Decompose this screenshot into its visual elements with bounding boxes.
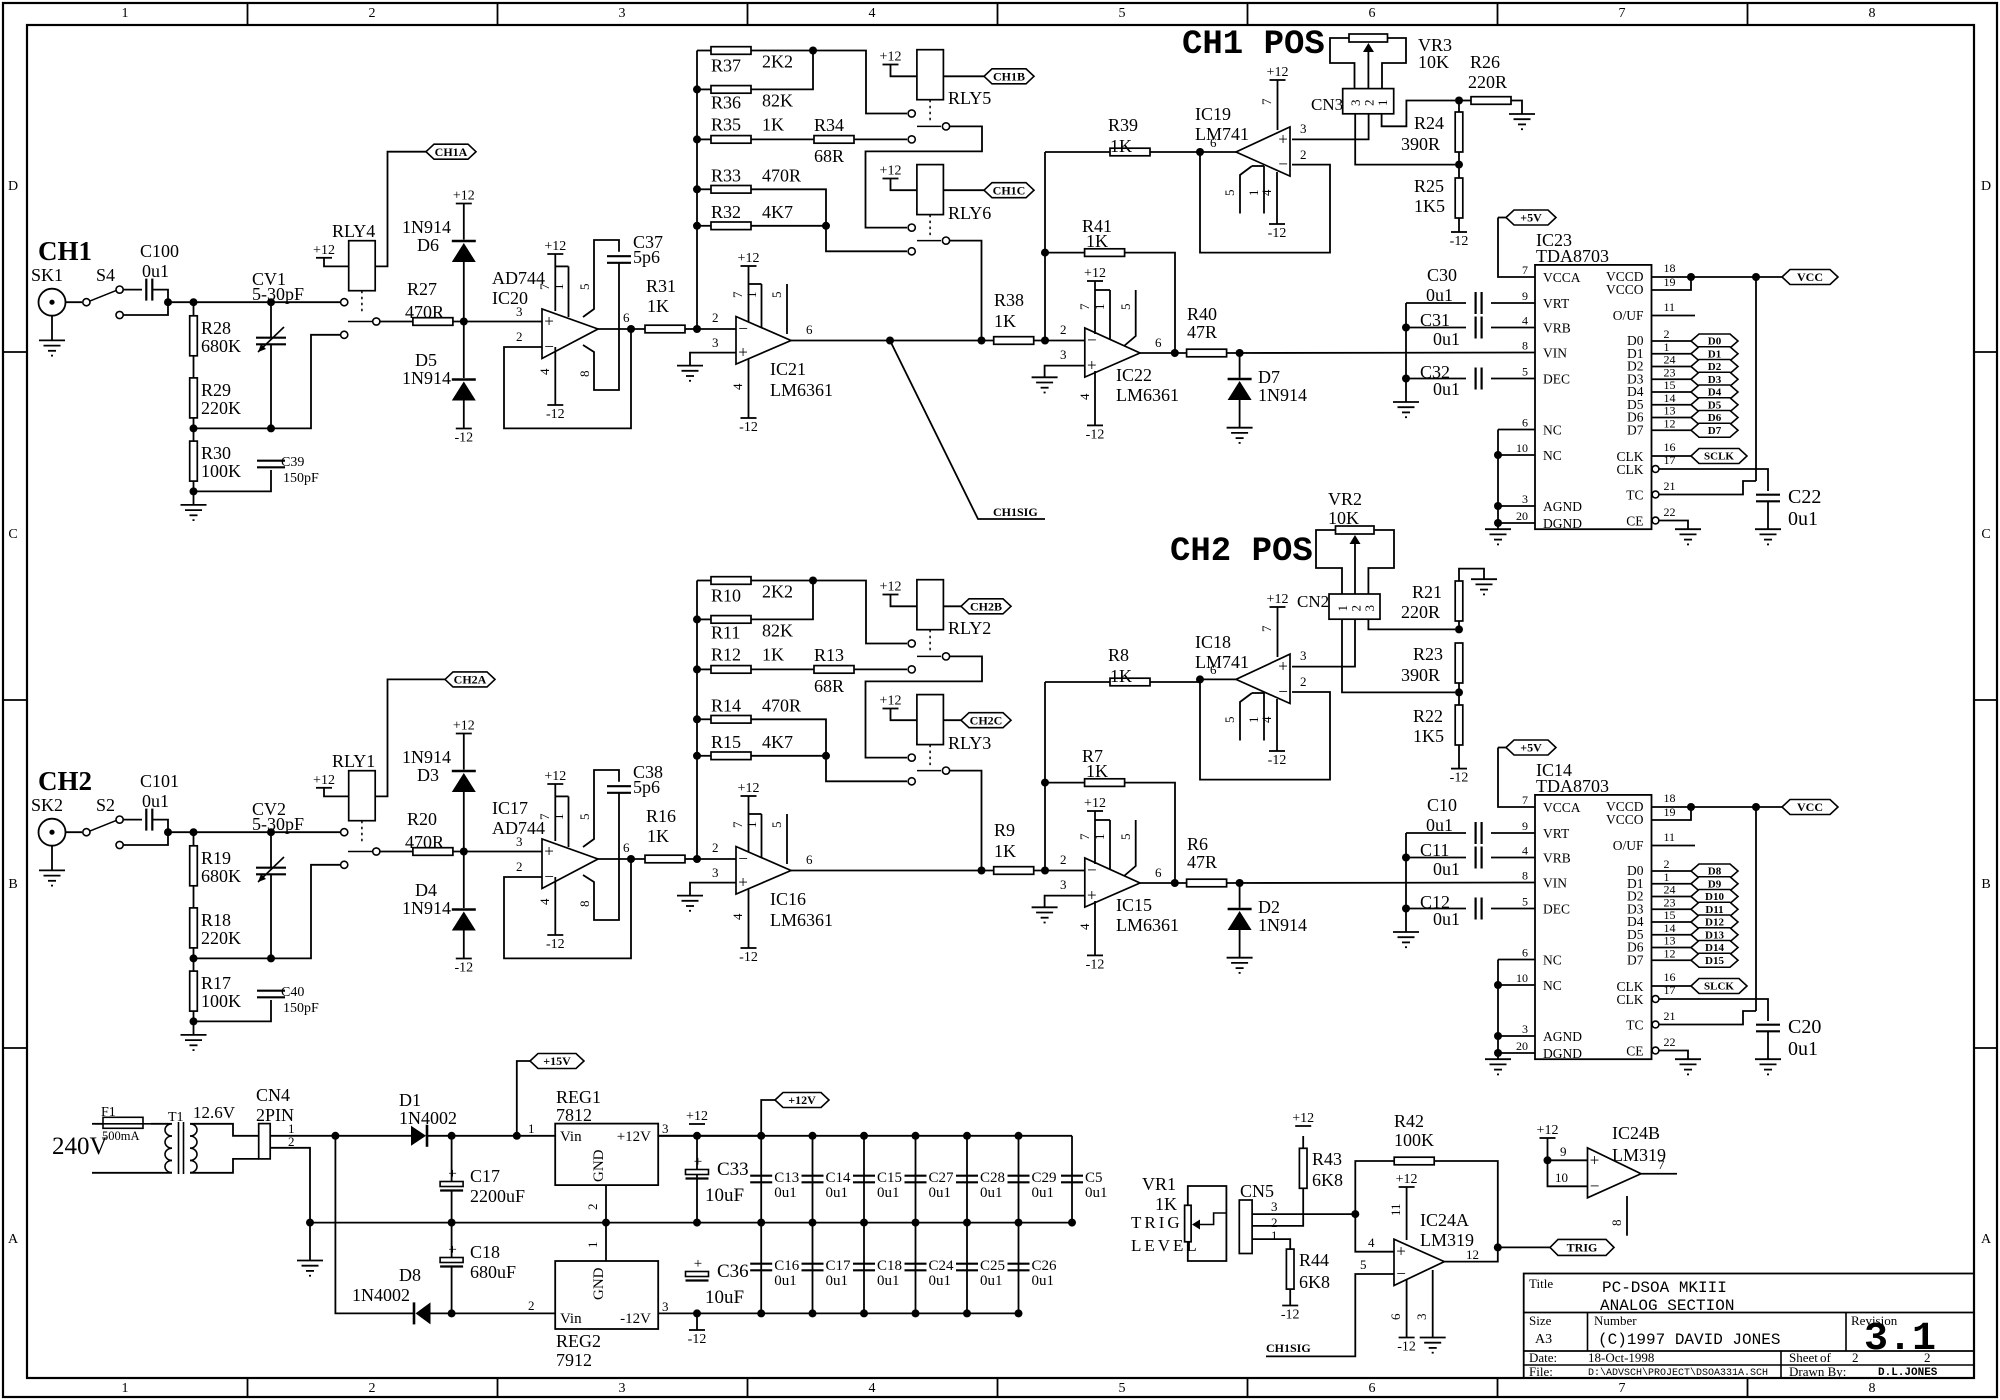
pin 21 bubble: [1652, 491, 1659, 498]
net flag D13: [1691, 928, 1738, 942]
title ANALOG SECTION: [1600, 1297, 1734, 1315]
svg-text:3: 3: [712, 865, 719, 880]
wire: [1094, 371, 1096, 425]
pin 1: [744, 822, 759, 829]
wire: [555, 265, 568, 267]
svg-text:5: 5: [769, 822, 784, 829]
capacitor C33 value: [705, 1185, 744, 1206]
capacitor C11: [1476, 847, 1482, 869]
svg-text:2: 2: [712, 840, 719, 855]
svg-text:-12: -12: [546, 407, 565, 422]
title sheet n: [1852, 1350, 1859, 1365]
svg-text:3: 3: [1271, 1199, 1278, 1214]
capacitor C24 label: [929, 1258, 955, 1274]
wire: [123, 832, 168, 845]
wire: [583, 793, 619, 920]
wire: [1109, 290, 1111, 340]
svg-text:8: 8: [1869, 1381, 1876, 1396]
resistor R39 label: [1108, 115, 1138, 135]
wire: [915, 1223, 917, 1314]
pin 3: [1060, 347, 1067, 362]
ADC pin D4: [1627, 384, 1644, 399]
svg-text:6: 6: [1522, 416, 1528, 430]
capacitor C13 label: [774, 1170, 799, 1186]
wire: [504, 329, 631, 428]
svg-text:R40: R40: [1187, 304, 1217, 324]
pin 24: [1664, 353, 1676, 367]
wire: [193, 418, 195, 441]
capacitor C17 label: [470, 1166, 500, 1186]
svg-text:7: 7: [1658, 1157, 1665, 1172]
svg-text:+12V: +12V: [617, 1129, 651, 1145]
svg-text:D1: D1: [1708, 348, 1721, 360]
svg-text:NC: NC: [1543, 448, 1562, 463]
relay RLY4 contacts: [341, 299, 380, 339]
wire: [463, 401, 465, 429]
capacitor C17 label: [826, 1258, 852, 1274]
op-amp IC22 name1: [1116, 365, 1152, 385]
junction: [693, 615, 701, 623]
svg-text:−: −: [1396, 1264, 1406, 1283]
wire: [1252, 1189, 1303, 1226]
wire: [1276, 172, 1278, 224]
pin 13: [1664, 934, 1676, 948]
resistor R23 value: [1401, 665, 1440, 685]
wire: [1498, 1052, 1535, 1054]
relay RLY1 contacts: [341, 829, 380, 869]
wire: [697, 718, 711, 720]
svg-text:-12: -12: [454, 431, 473, 446]
junction: [1494, 1049, 1502, 1057]
svg-text:3: 3: [516, 304, 523, 319]
svg-text:C39: C39: [281, 455, 304, 470]
svg-text:SLCK: SLCK: [1704, 981, 1734, 993]
wire: [1125, 783, 1175, 883]
capacitor C17: [440, 1166, 463, 1191]
resistor R38 label: [994, 290, 1024, 310]
wire: [1124, 820, 1136, 876]
capacitor C38: [607, 786, 631, 793]
svg-text:16: 16: [1664, 440, 1676, 454]
wire: [190, 1124, 259, 1136]
resistor R13: [814, 666, 854, 674]
svg-text:TDA8703: TDA8703: [1536, 246, 1609, 266]
svg-text:1K: 1K: [647, 826, 669, 846]
diode D2 value: [1258, 915, 1307, 935]
power -12: [546, 935, 565, 952]
op-amp IC18 value: [1195, 652, 1249, 672]
svg-text:7: 7: [1522, 793, 1528, 807]
svg-text:R28: R28: [201, 318, 231, 338]
svg-text:390R: 390R: [1401, 134, 1440, 154]
resistor R38: [994, 337, 1034, 345]
wire: [451, 1191, 453, 1223]
resistor R18 label: [201, 910, 231, 930]
svg-text:4: 4: [1259, 189, 1274, 196]
wire: [760, 1223, 762, 1314]
svg-text:TC: TC: [1626, 1018, 1643, 1033]
net flag D6: [1691, 411, 1738, 425]
wire: [1660, 1051, 1689, 1060]
svg-text:IC22: IC22: [1116, 365, 1152, 385]
svg-text:0u1: 0u1: [929, 1185, 952, 1201]
capacitor C20: [1756, 1025, 1780, 1032]
capacitor C16 value: [774, 1273, 797, 1289]
resistor R41 label: [1082, 216, 1112, 236]
wire: [193, 886, 195, 908]
resistor R8 value: [1110, 666, 1132, 686]
svg-text:5: 5: [1222, 717, 1237, 724]
junction: [757, 1309, 765, 1317]
diode D8: [414, 1302, 431, 1324]
svg-text:+12: +12: [313, 773, 335, 788]
title block Title: [1529, 1276, 1553, 1291]
relay RLY3 contacts: [908, 754, 950, 785]
junction: [1196, 675, 1204, 683]
svg-text:R33: R33: [711, 165, 741, 185]
wire: [270, 344, 272, 428]
svg-text:5: 5: [1522, 895, 1528, 909]
svg-text:D9: D9: [1708, 878, 1722, 890]
ADC pin CLKb: [1617, 462, 1644, 477]
pin 21: [1664, 479, 1676, 493]
junction: [1068, 1219, 1076, 1227]
title block frame: [1524, 1274, 1974, 1379]
wire: [751, 51, 813, 90]
power -12: [454, 959, 473, 976]
ADC pin D3: [1627, 901, 1644, 916]
wire: [1200, 152, 1330, 253]
svg-text:CH2 POS: CH2 POS: [1170, 533, 1313, 571]
pin 2: [516, 329, 523, 344]
capacitor C14 label: [826, 1170, 852, 1186]
wire: [463, 792, 465, 852]
svg-text:-12: -12: [1086, 427, 1105, 442]
title block Size: [1529, 1313, 1552, 1328]
capacitor C10 label: [1427, 795, 1457, 815]
junction: [1494, 502, 1502, 510]
wire: [1252, 165, 1264, 167]
junction: [460, 318, 468, 326]
svg-text:R20: R20: [407, 809, 437, 829]
wire: [1239, 353, 1241, 378]
relay RLY6 coil: [917, 165, 944, 237]
svg-text:1K: 1K: [994, 841, 1016, 861]
ADC pin 9 VRT: [1522, 819, 1570, 841]
capacitor C30 value: [1426, 285, 1453, 305]
capacitor C15 value: [877, 1185, 900, 1201]
power +12: [453, 719, 475, 734]
capacitor C26 value: [1032, 1273, 1055, 1289]
power +12: [544, 769, 566, 784]
svg-text:CN2: CN2: [1297, 592, 1329, 611]
net flag CH2C: [961, 713, 1011, 728]
svg-text:1: 1: [585, 1242, 600, 1249]
pin 2: [1300, 674, 1307, 689]
svg-text:-12: -12: [454, 961, 473, 976]
wire: [1188, 1186, 1227, 1261]
junction: [1015, 1132, 1023, 1140]
capacitor C18 label: [470, 1242, 500, 1262]
svg-text:6: 6: [1155, 865, 1162, 880]
svg-text:4: 4: [1368, 1235, 1375, 1250]
net flag SLCK: [1691, 979, 1747, 994]
label TRIG: [1131, 1213, 1183, 1232]
svg-text:R12: R12: [711, 644, 741, 664]
wire: [123, 302, 168, 315]
ground: [1393, 402, 1419, 417]
capacitor C18 label: [877, 1258, 902, 1274]
resistor R19 value: [201, 866, 241, 886]
capacitor C37: [607, 256, 631, 263]
pin 3: [712, 865, 719, 880]
svg-text:R29: R29: [201, 380, 231, 400]
junction: [602, 1219, 610, 1227]
svg-text:+12: +12: [686, 1109, 708, 1124]
svg-text:7: 7: [1259, 98, 1274, 105]
net flag D3: [1691, 372, 1738, 386]
switch S2 label: [96, 795, 115, 815]
wire: [1045, 366, 1085, 378]
ground: [1032, 377, 1058, 392]
junction: [963, 1309, 971, 1317]
wire: [554, 347, 556, 405]
svg-text:NC: NC: [1543, 953, 1562, 968]
wire: [1498, 522, 1535, 524]
svg-text:LM6361: LM6361: [770, 910, 833, 930]
junction: [1494, 1243, 1502, 1251]
svg-text:File:: File:: [1529, 1364, 1553, 1379]
svg-text:CE: CE: [1626, 514, 1643, 529]
junction: [627, 855, 635, 863]
wire: [555, 795, 568, 797]
svg-text:C18: C18: [877, 1258, 902, 1274]
net flag +15V: [530, 1054, 584, 1069]
svg-text:7912: 7912: [556, 1350, 592, 1370]
op-amp IC21 name1: [770, 359, 806, 379]
power -12: [546, 405, 565, 422]
pin 19: [1664, 805, 1676, 819]
ADC pin VCCD: [1606, 269, 1644, 284]
svg-text:1: 1: [1375, 100, 1390, 107]
svg-text:LM741: LM741: [1195, 124, 1249, 144]
resistor R27 label: [407, 279, 437, 299]
wire: [1491, 378, 1535, 380]
svg-text:R30: R30: [201, 443, 231, 463]
wire: [1406, 327, 1466, 329]
pin 1: [744, 292, 759, 299]
capacitor C11 label: [1420, 840, 1449, 860]
power -12: [1086, 425, 1105, 442]
svg-text:DEC: DEC: [1543, 372, 1570, 387]
resistor R19: [190, 846, 198, 886]
capacitor C15: [853, 1176, 875, 1183]
op-amp IC19 label: [1195, 104, 1231, 124]
svg-text:-12: -12: [1450, 234, 1469, 249]
net flag CH1C: [984, 183, 1034, 198]
wire: [891, 709, 917, 721]
resistor R9: [994, 867, 1034, 875]
svg-text:T1: T1: [168, 1110, 184, 1125]
svg-text:C22: C22: [1788, 486, 1821, 508]
capacitor C18 value: [470, 1262, 516, 1282]
wire: [1498, 747, 1506, 749]
wire: [324, 258, 349, 267]
diode D2: [1228, 909, 1252, 930]
svg-text:0u1: 0u1: [1032, 1273, 1055, 1289]
wire: [1458, 101, 1460, 113]
resistor R17 label: [201, 973, 231, 993]
svg-text:2: 2: [1852, 1350, 1859, 1365]
wire: [194, 427, 272, 429]
svg-text:C36: C36: [717, 1261, 749, 1282]
junction: [190, 828, 198, 836]
svg-text:RLY4: RLY4: [332, 221, 375, 241]
svg-text:4K7: 4K7: [762, 202, 793, 222]
resistor R6 value: [1187, 852, 1217, 872]
connector CN3: [1343, 89, 1394, 114]
svg-text:R6: R6: [1187, 834, 1208, 854]
ADC pin 6 NC: [1522, 946, 1562, 968]
wire: [151, 1123, 168, 1125]
svg-text:C100: C100: [140, 241, 179, 261]
svg-text:CH2C: CH2C: [970, 713, 1003, 727]
connector SK1 label: [31, 265, 63, 285]
resistor R17 value: [201, 991, 241, 1011]
diode D1 label: [399, 1090, 421, 1110]
junction: [1041, 249, 1049, 257]
capacitor C100: [146, 279, 152, 301]
svg-text:82K: 82K: [762, 620, 793, 640]
svg-text:C24: C24: [929, 1258, 955, 1274]
wire: [1652, 429, 1692, 431]
resistor R34 value: [814, 146, 844, 166]
capacitor C38 label: [633, 762, 663, 782]
wire: [1406, 908, 1466, 910]
svg-text:3: 3: [662, 1121, 669, 1136]
pin 21 bubble: [1652, 1021, 1659, 1028]
svg-text:1: 1: [1092, 834, 1107, 841]
svg-text:CH2A: CH2A: [454, 672, 487, 686]
relay RLY2 contacts: [908, 640, 950, 673]
wire: [696, 1313, 698, 1330]
wire: [1459, 569, 1484, 581]
resistor R40: [1187, 349, 1227, 357]
svg-text:18: 18: [1664, 791, 1676, 805]
svg-text:3: 3: [1060, 877, 1067, 892]
relay RLY2 label: [948, 618, 991, 638]
svg-text:7: 7: [1259, 625, 1274, 632]
potentiometer VR1: [1185, 1205, 1227, 1242]
wire: [554, 784, 556, 841]
svg-text:3: 3: [1414, 1314, 1429, 1321]
svg-text:RLY3: RLY3: [948, 733, 991, 753]
trimcap CV2 value: [252, 814, 304, 834]
svg-text:D10: D10: [1705, 891, 1724, 903]
connector CN4: [259, 1124, 271, 1159]
resistor R30 label: [201, 443, 231, 463]
net flag +12V: [775, 1093, 829, 1108]
svg-text:VRB: VRB: [1543, 851, 1571, 866]
wire: [696, 51, 698, 330]
junction: [809, 1132, 817, 1140]
ADC pin 10 NC: [1516, 971, 1562, 993]
svg-text:22: 22: [1664, 1035, 1676, 1049]
wire: [554, 877, 556, 935]
pin 17: [1664, 983, 1676, 997]
svg-text:+12: +12: [453, 189, 475, 204]
svg-text:R13: R13: [814, 645, 844, 665]
svg-text:of: of: [1820, 1350, 1832, 1365]
resistor R40 value: [1187, 322, 1217, 342]
svg-text:5: 5: [1119, 6, 1126, 21]
junction: [1455, 625, 1463, 633]
svg-text:16: 16: [1664, 970, 1676, 984]
resistor R20 label: [407, 809, 437, 829]
svg-text:5-30pF: 5-30pF: [252, 814, 304, 834]
ADC pin 8 VIN: [1522, 339, 1567, 361]
wire: [749, 813, 762, 815]
pin 4: [730, 913, 745, 920]
svg-text:-12: -12: [1450, 771, 1469, 786]
svg-text:0u1: 0u1: [1426, 285, 1453, 305]
wire: [1094, 281, 1096, 334]
svg-text:0u1: 0u1: [1433, 859, 1460, 879]
power -12: [454, 429, 473, 446]
ground: [1227, 958, 1253, 973]
svg-text:D6: D6: [1708, 412, 1722, 424]
svg-text:6: 6: [623, 310, 630, 325]
wire: [1641, 1173, 1677, 1175]
diode D1: [411, 1125, 427, 1147]
resistor R24 label: [1414, 113, 1444, 133]
resistor R34: [814, 136, 854, 144]
wire: [1444, 1247, 1498, 1261]
svg-text:AGND: AGND: [1543, 1029, 1582, 1044]
ground: [1485, 1059, 1511, 1074]
svg-text:VCCO: VCCO: [1606, 812, 1644, 827]
power +12: [453, 189, 475, 204]
svg-text:C10: C10: [1427, 795, 1457, 815]
svg-text:C20: C20: [1788, 1016, 1821, 1038]
capacitor C29 label: [1032, 1170, 1057, 1186]
ground: [1755, 1059, 1781, 1074]
wire: [697, 88, 711, 90]
pin 22: [1664, 1035, 1676, 1049]
capacitor C27: [905, 1176, 927, 1183]
wire: [1652, 340, 1692, 342]
junction: [1171, 349, 1179, 357]
net flag CH2A: [445, 672, 495, 687]
svg-text:+15V: +15V: [543, 1054, 571, 1068]
resistor R29: [190, 378, 198, 418]
svg-text:1K: 1K: [1086, 761, 1108, 781]
pin 4: [1077, 393, 1092, 400]
op-amp IC18 label: [1195, 632, 1231, 652]
pin 1: [1664, 870, 1670, 884]
svg-text:TRIG: TRIG: [1567, 1240, 1598, 1254]
svg-text:1: 1: [122, 6, 129, 21]
transformer T1 value: [193, 1103, 236, 1122]
ADC pin TC: [1626, 488, 1643, 503]
junction: [1687, 273, 1695, 281]
pin 22 bubble: [1652, 1047, 1659, 1054]
svg-text:R11: R11: [711, 622, 740, 642]
capacitor C22 label: [1788, 486, 1821, 508]
wire: [748, 359, 750, 418]
capacitor C32 value: [1433, 379, 1460, 399]
svg-text:3: 3: [619, 6, 626, 21]
